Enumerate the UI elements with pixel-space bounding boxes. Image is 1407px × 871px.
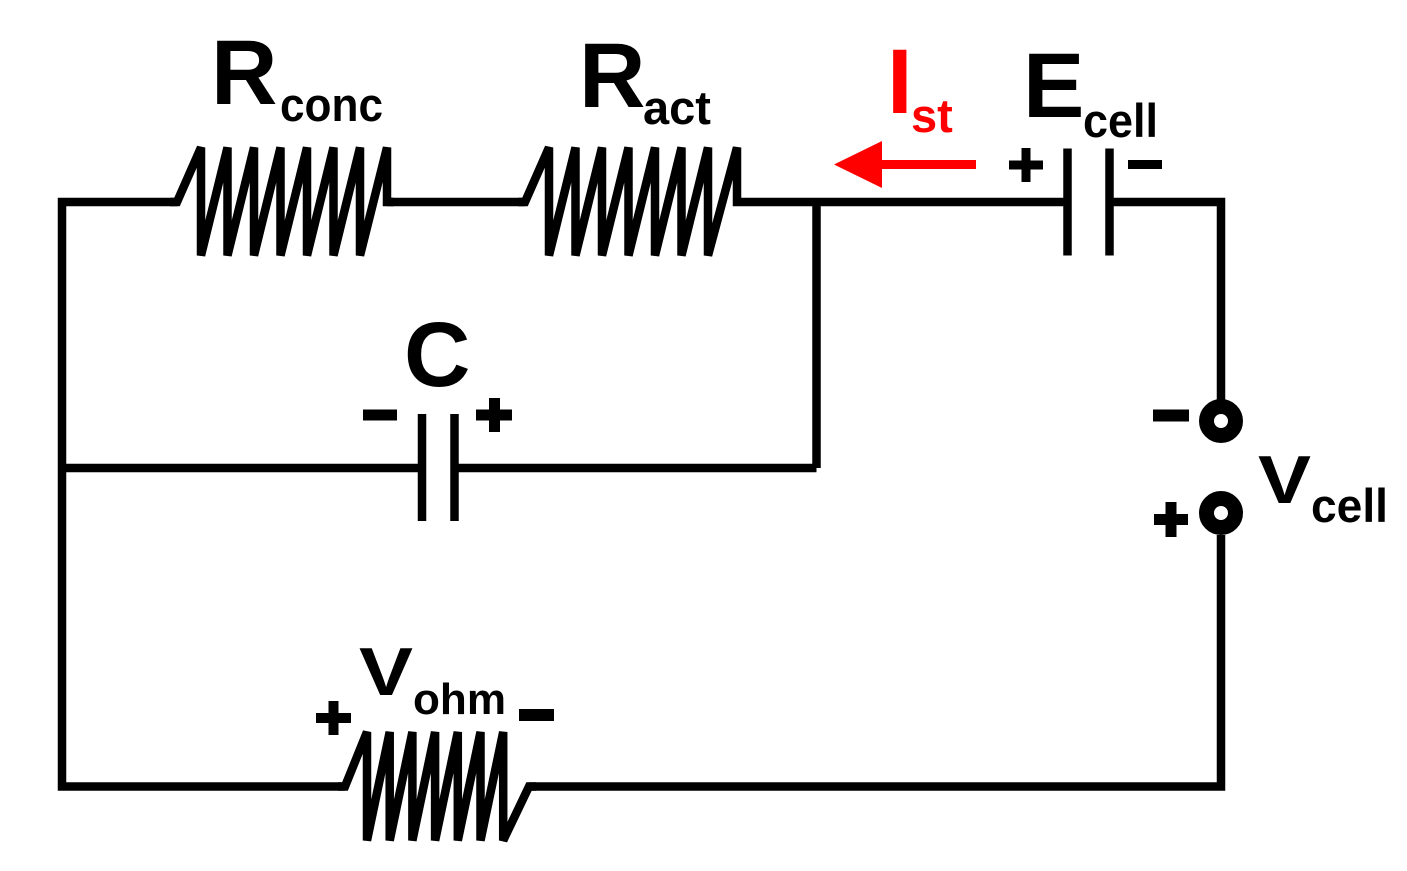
wire: plus terminal down right rail to bottom wire xyxy=(529,535,1221,787)
svg-text:cell: cell xyxy=(1083,94,1158,147)
minus sign (C -) xyxy=(363,410,397,421)
wire: junction node (top wire down to capacitor branch) xyxy=(812,202,821,468)
plus sign (Vcell +) xyxy=(1154,514,1188,525)
plus sign (Ecell +) xyxy=(1009,161,1043,170)
wire: between Rconc and Ract xyxy=(387,198,525,207)
svg-text:ohm: ohm xyxy=(413,675,506,724)
plus sign (C +) xyxy=(476,410,512,421)
wire: left branch (top wire to left rail to bottom wire entry) xyxy=(62,202,345,787)
svg-text:conc: conc xyxy=(280,78,383,131)
resistor Rconc xyxy=(170,148,394,256)
svg-text:V: V xyxy=(359,634,413,710)
wire: Ecell right plate to right rail down to minus terminal xyxy=(1113,202,1222,400)
resistor Ract xyxy=(518,148,744,256)
wire: Ract to Ecell left plate xyxy=(744,198,1065,207)
terminal node minus (Vcell) xyxy=(1207,407,1236,436)
svg-text:E: E xyxy=(1023,35,1084,137)
svg-text:R: R xyxy=(579,25,645,127)
current arrow Ist (red) xyxy=(834,141,882,188)
svg-text:cell: cell xyxy=(1311,479,1388,532)
resistor Vohm (ohmic resistance) xyxy=(338,732,536,841)
capacitor C plates xyxy=(418,414,427,521)
svg-text:V: V xyxy=(1258,442,1311,518)
svg-text:st: st xyxy=(911,89,953,142)
minus sign (Vcell -) xyxy=(1153,410,1189,422)
minus sign (Vohm -) xyxy=(519,709,554,721)
svg-text:act: act xyxy=(643,81,711,134)
battery Ecell plates xyxy=(1063,149,1072,256)
middle wire (left rail to capacitor) xyxy=(62,464,419,473)
middle wire (capacitor to junction) xyxy=(458,464,817,473)
svg-text:R: R xyxy=(211,22,277,124)
minus sign (Ecell -) xyxy=(1128,160,1162,169)
svg-text:C: C xyxy=(404,304,470,406)
terminal node plus (Vcell) xyxy=(1207,499,1236,528)
svg-text:I: I xyxy=(887,31,913,133)
plus sign (Vohm +) xyxy=(316,713,351,723)
